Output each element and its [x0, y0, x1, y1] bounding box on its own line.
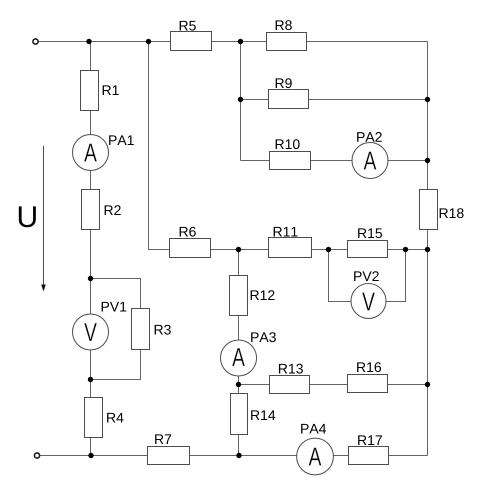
label R7: [155, 434, 171, 444]
voltmeter PV1: [73, 314, 109, 350]
node junction PV1 bottom / R3 branch: [88, 377, 93, 382]
label R2: [105, 205, 121, 215]
voltmeter PV2: [351, 284, 386, 319]
wire top rail: [39, 41, 428, 43]
label R8: [276, 20, 292, 30]
node junction top rail / R5 branch: [146, 39, 151, 44]
resistor R5: [171, 32, 212, 51]
wire left branch vertical (R1 PA1 R2 PV1 R4): [90, 42, 92, 456]
resistor R15: [348, 241, 388, 258]
node junction PA2 right: [425, 158, 430, 163]
label R5: [180, 21, 196, 31]
terminal bottom left: [34, 453, 39, 458]
wire bottom rail: [40, 455, 428, 457]
label R12: [251, 290, 275, 300]
resistor R18: [420, 190, 438, 230]
node junction R16 right / right rail: [425, 382, 430, 387]
resistor R9: [269, 90, 309, 109]
resistor R6: [170, 239, 211, 258]
ammeter PA4: [297, 438, 334, 475]
label PV2: [354, 271, 379, 281]
node junction R15 right / PV2 right: [403, 247, 408, 252]
node junction R15 row / right rail: [425, 247, 430, 252]
node junction R9 left: [238, 97, 243, 102]
wire R5/R6 branch vertical and R6 row: [149, 42, 428, 250]
wire R13/R16 row: [239, 384, 428, 386]
voltage label U: [19, 206, 36, 227]
resistor R14: [231, 394, 248, 435]
arrow voltage direction: [41, 146, 46, 292]
label R6: [180, 227, 196, 237]
ammeter PA3: [221, 340, 257, 376]
label R10: [276, 139, 300, 149]
node junction R9 right: [425, 97, 430, 102]
label R9: [276, 78, 292, 88]
node junction bottom rail / R14: [236, 453, 241, 458]
node junction top rail / left branch: [86, 39, 91, 44]
ammeter PA1: [73, 135, 109, 171]
terminal top left: [33, 39, 38, 44]
label R13: [279, 364, 303, 374]
wire R12/PA3/R14 column: [238, 250, 240, 456]
wire R10 row: [241, 160, 428, 162]
label R17: [358, 435, 382, 445]
resistor R8: [267, 33, 307, 51]
resistor R7: [148, 447, 190, 465]
label R15: [358, 228, 382, 238]
label PA1: [109, 135, 134, 145]
wire R9 row: [241, 99, 428, 101]
node junction PA3 bottom / R13 left: [236, 382, 241, 387]
resistor R10: [270, 152, 311, 170]
label R3: [155, 325, 171, 335]
node junction PV1 top / R3 branch: [88, 276, 93, 281]
label R18: [440, 208, 464, 218]
node junction bottom rail / R4: [88, 453, 93, 458]
resistor R16: [348, 375, 388, 393]
ammeter PA2: [352, 143, 388, 179]
wire R3 parallel branch: [91, 279, 141, 380]
resistor R17: [349, 447, 389, 465]
resistor R2: [82, 190, 100, 230]
resistor R1: [81, 71, 99, 111]
resistor R3: [132, 309, 150, 350]
label PA2: [357, 132, 382, 142]
label R1: [103, 85, 119, 95]
label R14: [251, 410, 275, 420]
label R16: [357, 362, 381, 372]
resistor R13: [270, 376, 310, 394]
node junction R6 right / R12 top: [236, 247, 241, 252]
resistor R12: [230, 276, 248, 316]
resistor R11: [269, 238, 312, 258]
resistor R4: [85, 398, 103, 438]
node junction R11 right / PV2 left: [326, 247, 331, 252]
label PV1: [102, 302, 127, 312]
label R4: [107, 413, 123, 423]
wire right vertical rail: [427, 42, 429, 456]
label R11: [274, 227, 298, 237]
wire R8/R9/R10 branch vertical: [240, 42, 242, 161]
wire PV2 parallel branch: [329, 250, 406, 302]
label PA3: [251, 332, 276, 342]
label PA4: [301, 424, 326, 434]
node junction top rail / R8 branch: [238, 39, 243, 44]
